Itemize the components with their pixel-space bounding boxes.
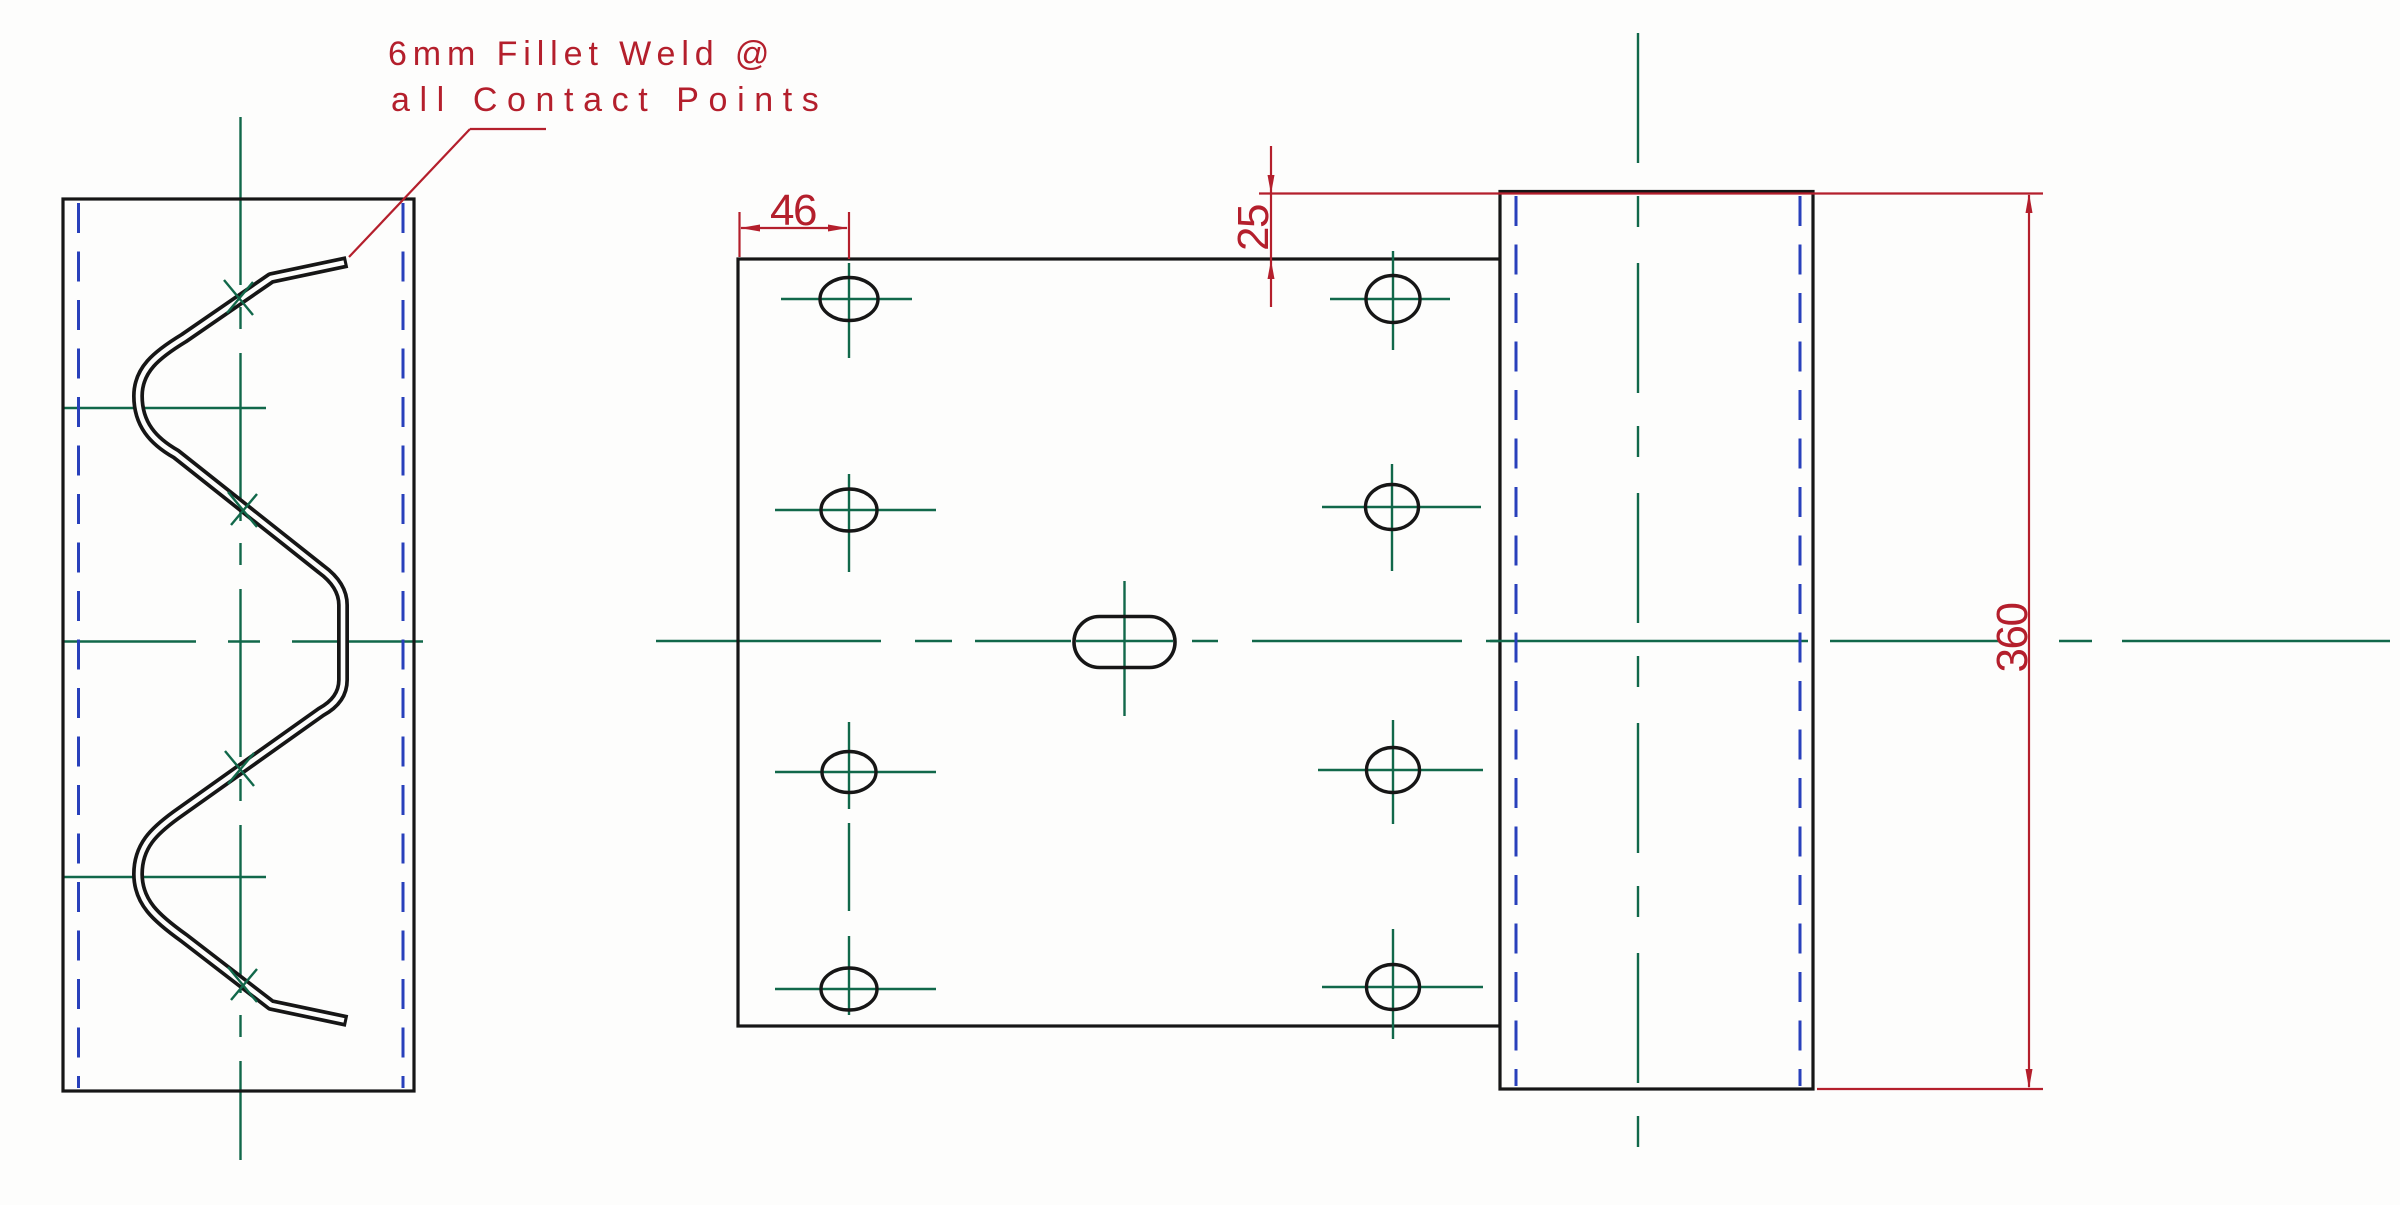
svg-text:all Contact Points: all Contact Points (391, 81, 828, 119)
svg-text:360: 360 (1988, 604, 2037, 673)
contact point mark 3 (225, 751, 254, 786)
hole H5 right (1366, 276, 1420, 323)
dim 25 vertical line (1270, 146, 1272, 307)
left view lower horizontal centerline (63, 876, 266, 878)
svg-text:6mm Fillet Weld @: 6mm Fillet Weld @ (388, 35, 775, 73)
left view vertical centerline (239, 117, 241, 1160)
dim 46 arrow left (740, 225, 760, 232)
hole H8 right centerlines (1322, 929, 1483, 1039)
right view hidden line left (1515, 196, 1518, 1086)
W-beam rail profile outer (138, 262, 347, 1021)
contact point mark 2 (228, 492, 257, 527)
left view upper horizontal centerline (63, 407, 266, 409)
right view outline (1500, 192, 1813, 1090)
left view middle horizontal centerline (63, 640, 423, 642)
hole H4 left centerlines (775, 936, 936, 1015)
dim 25 arrow down (1268, 175, 1275, 194)
weld note leader diagonal (349, 129, 470, 257)
hole H3 left (822, 752, 876, 793)
svg-text:25: 25 (1229, 205, 1278, 251)
hole H3 left centerlines (775, 722, 936, 911)
hole H8 right (1367, 965, 1420, 1010)
right view vertical centerline (1637, 33, 1639, 1169)
hole H1 left centerlines (781, 263, 912, 358)
hole H1 left (820, 278, 878, 321)
plate main horizontal centerline (656, 640, 2390, 642)
plate outline (738, 259, 1500, 1026)
svg-text:46: 46 (770, 186, 816, 235)
W-beam rail profile inner white gap (138, 263, 344, 1021)
dim 46 extension line right (848, 212, 850, 259)
contact point mark 1 (224, 280, 253, 315)
weld note leader horizontal (470, 128, 546, 130)
hole H6 right (1366, 485, 1419, 530)
hole H2 left centerlines (775, 474, 936, 572)
dim 46 extension line left (738, 212, 740, 257)
hole H6 right centerlines (1322, 464, 1481, 571)
hole H2 left (821, 489, 877, 531)
hole H7 right centerlines (1318, 720, 1483, 824)
central slot (1074, 617, 1175, 668)
left view hidden line left (77, 203, 80, 1088)
dim 46 dimension line (741, 227, 847, 229)
dim 360 bottom extension line (1817, 1088, 2043, 1090)
left view hidden line right (402, 203, 405, 1088)
hole H5 right centerlines (1330, 251, 1450, 350)
dim 360 vertical line (2028, 195, 2030, 1087)
dim 25 arrow up (1268, 260, 1275, 279)
dim 360 arrow down (2026, 1069, 2033, 1089)
left view outline rectangle (63, 199, 414, 1091)
right view horizontal centerline inside (1490, 640, 1808, 642)
top red extension line shared (1259, 192, 2043, 194)
hole H7 right (1367, 748, 1420, 793)
dim 46 arrow right (828, 225, 848, 232)
right view hidden line right (1799, 196, 1802, 1086)
contact point mark 4 (228, 967, 257, 1002)
central slot centerline vertical (1123, 581, 1125, 716)
hole H4 left (821, 968, 877, 1010)
dim 360 arrow up (2026, 193, 2033, 213)
